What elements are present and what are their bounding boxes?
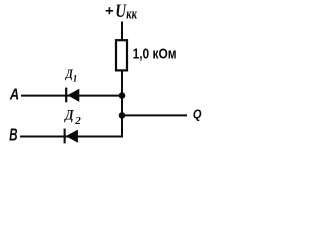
svg-text:A: A — [9, 86, 19, 103]
label D1 — [65, 66, 77, 85]
output wire Q — [122, 114, 187, 116]
svg-text:Q: Q — [193, 107, 202, 122]
diode D1 triangle — [67, 89, 79, 102]
svg-text:1,0 кОм: 1,0 кОм — [133, 45, 177, 62]
wire from +Ukk down to resistor — [121, 22, 123, 42]
svg-text:1: 1 — [73, 74, 78, 84]
resistor R1 body — [116, 40, 127, 70]
diode D1 cathode bar — [65, 88, 67, 103]
diode D2 triangle — [66, 130, 78, 143]
svg-text:Д: Д — [63, 106, 74, 122]
svg-text:кк: кк — [126, 6, 137, 22]
wire input A to node — [21, 95, 122, 97]
wire from resistor bottom to node corner — [121, 71, 123, 138]
wire input B to node corner — [20, 136, 123, 138]
svg-text:B: B — [9, 127, 18, 146]
node junction dot on Q line — [119, 112, 126, 119]
node junction dot on A line — [119, 92, 126, 99]
power supply label +Ukk — [106, 0, 137, 22]
svg-text:2: 2 — [74, 115, 81, 127]
label D2 — [63, 106, 81, 127]
svg-text:U: U — [115, 0, 127, 21]
diode D2 cathode bar — [64, 129, 66, 144]
